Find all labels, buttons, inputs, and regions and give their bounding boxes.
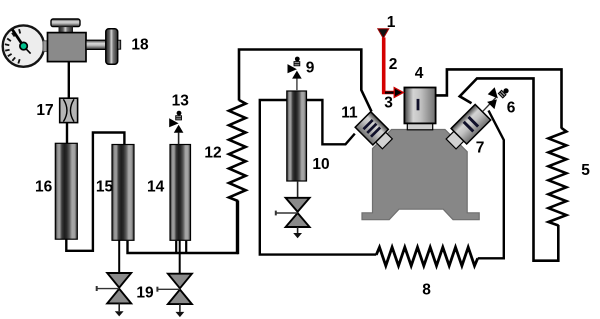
red feed arrow 1	[378, 29, 389, 39]
svg-text:5: 5	[581, 162, 590, 179]
svg-text:9: 9	[306, 60, 315, 77]
flow restrictor 17	[60, 98, 78, 122]
svg-text:1: 1	[387, 14, 396, 31]
drain valve 19a	[97, 273, 132, 316]
stem component7 to valve 6	[483, 98, 496, 112]
component 11 marks III	[363, 119, 374, 130]
wire cylinder4 to coil 5 top	[436, 69, 562, 128]
resistor 8	[376, 247, 477, 266]
column 14	[170, 145, 191, 241]
valve 18 handwheel nub	[118, 40, 121, 49]
svg-text:15: 15	[96, 179, 114, 196]
svg-text:4: 4	[415, 65, 424, 82]
feed arrowhead 3	[394, 88, 403, 98]
svg-text:18: 18	[131, 37, 149, 54]
component 11 body	[355, 112, 388, 145]
wire column10 right to component 11	[306, 100, 355, 144]
wire coil12 bottom	[237, 201, 239, 255]
wire column10 left to resistor 8	[260, 100, 377, 255]
angle valve 9	[288, 57, 302, 79]
column 16	[55, 143, 77, 239]
valve 18 top knob	[51, 19, 80, 27]
wire column14 to drain valve 19b	[179, 240, 181, 274]
wire column15 bottom to column14 bottom to coil12	[128, 202, 238, 254]
black inner feed line	[385, 91, 395, 93]
wire column15 to drain valve 19a	[118, 240, 120, 273]
svg-text:2: 2	[389, 56, 398, 73]
component 7 marks II	[467, 116, 479, 128]
wire coil5 bottom to valve6 jog path	[460, 78, 559, 260]
wire valve6 outlet to resistor 8	[478, 111, 504, 259]
wire block18 to restrictor 17	[68, 62, 70, 99]
svg-text:10: 10	[312, 156, 329, 173]
drain valve 19b	[157, 274, 192, 317]
valve 18 side pipe	[86, 40, 106, 49]
valve 18 knob stem	[59, 27, 73, 33]
component 11 collar	[355, 112, 395, 152]
svg-text:14: 14	[147, 179, 165, 196]
angle valve 6	[484, 82, 512, 110]
svg-text:7: 7	[476, 140, 485, 157]
svg-text:3: 3	[384, 95, 393, 112]
cylinder 4 body	[404, 88, 435, 124]
cylinder 4 mark I	[417, 99, 420, 110]
svg-text:17: 17	[36, 102, 53, 119]
svg-text:12: 12	[204, 145, 221, 162]
svg-text:19: 19	[136, 285, 154, 302]
component 7 body	[451, 104, 491, 144]
pressure gauge	[3, 25, 44, 66]
svg-text:8: 8	[422, 282, 431, 299]
gauge stub to valve block	[43, 41, 48, 52]
engine block	[362, 130, 479, 220]
wire 17 to column 16	[66, 123, 68, 145]
angle valve 13	[169, 111, 183, 133]
wire column10 to drain valve	[297, 181, 299, 198]
cylinder 4 collar	[407, 122, 432, 130]
svg-text:6: 6	[507, 100, 516, 117]
stub column14 bottom left	[175, 241, 177, 253]
stub column14 bottom right	[185, 241, 187, 253]
drain valve below column 10	[276, 198, 310, 238]
component 7 collar	[443, 104, 490, 151]
svg-text:13: 13	[172, 93, 190, 110]
valve 18 handwheel	[106, 29, 118, 64]
column 15	[112, 145, 134, 241]
valve 18 body	[48, 33, 87, 62]
svg-text:16: 16	[35, 179, 53, 196]
column 10	[287, 91, 307, 181]
stem column10 to valve 9	[296, 78, 298, 91]
red feed line 2	[384, 38, 395, 93]
coil 12	[229, 100, 246, 201]
wire column16 bottom to column15 top	[66, 133, 124, 251]
wire coil12 top to junction above component 11	[239, 50, 372, 112]
coil 5	[548, 128, 566, 226]
stem valve13 to column14	[178, 132, 180, 144]
svg-text:11: 11	[341, 105, 358, 122]
